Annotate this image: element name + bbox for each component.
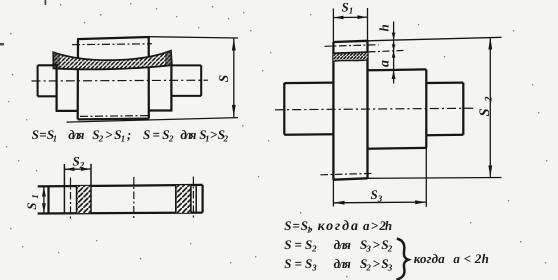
right shaft: [426, 81, 463, 84]
rim top edge: [77, 37, 149, 39]
right centerline: [192, 177, 194, 221]
left shaft: [37, 65, 39, 96]
svg-text:когда: когда: [318, 219, 358, 234]
svg-text:для: для: [180, 127, 196, 142]
middle centerline: [133, 177, 135, 221]
svg-text:S2 > S1 ;: S2 > S1 ;: [92, 127, 131, 144]
svg-text:S = S2: S = S2: [143, 127, 174, 144]
rim pitch line: [72, 43, 152, 46]
disc left edge: [332, 42, 334, 180]
S2 dimension line: [489, 38, 491, 178]
left shaft: [283, 83, 285, 135]
svg-text:a: a: [378, 60, 393, 67]
right figure arrows: [334, 15, 493, 204]
S2 right extension / hatch right edge: [90, 164, 92, 213]
svg-text:когда: когда: [414, 251, 446, 266]
svg-text:для: для: [68, 127, 84, 142]
svg-text:a > 2h: a > 2h: [363, 218, 392, 233]
S1 dimension line: [43, 186, 45, 213]
svg-text:S = S1: S = S1: [32, 127, 57, 144]
svg-text:S = S3: S = S3: [284, 256, 317, 273]
caption line under top-left figure: [32, 127, 229, 144]
S1 + S2 dim arrows: [42, 167, 91, 213]
left centerline: [70, 178, 72, 220]
svg-text:h: h: [376, 24, 391, 31]
bottom pitch line: [80, 115, 148, 118]
bottom pitch line: [321, 173, 374, 174]
rim/hub column right vertical: [148, 37, 150, 119]
rect bottom edge (with left extension): [38, 211, 203, 214]
top extension to S2: [368, 37, 502, 41]
h arrow top (points down to top ext): [392, 33, 396, 41]
S2 arrows: [488, 37, 492, 49]
svg-text:S2 > S3: S2 > S3: [360, 256, 393, 273]
right hatch band: [176, 185, 191, 213]
big curly brace: [396, 239, 408, 280]
S3 extension left (below disc): [332, 180, 334, 207]
left hatch band: [77, 186, 91, 213]
rect right edge: [201, 185, 203, 213]
dimension S: bottom extension: [67, 118, 239, 123]
hub: [368, 68, 427, 71]
left step: [55, 64, 57, 111]
S3 dimension line: [333, 201, 426, 204]
top pitch line: [325, 45, 379, 47]
top hatch band: [333, 52, 367, 61]
S1 extension lines up: [332, 9, 334, 43]
root extension (dash-dot): [369, 50, 406, 52]
column bottom edge: [78, 117, 149, 120]
right shaft: [171, 64, 201, 66]
h/a dimension line: [393, 22, 395, 84]
S dim arrows: [232, 38, 236, 117]
disc top edge: [333, 41, 367, 42]
svg-text:S = S2: S = S2: [284, 237, 317, 254]
svg-text:S1 > S2: S1 > S2: [199, 127, 228, 144]
S1 dimension line: [333, 16, 367, 19]
bowl right tip shading: [165, 51, 172, 67]
h arrow bottom (points up to root ext): [392, 51, 396, 58]
left slot line + S2 left extension: [63, 164, 65, 213]
svg-text:S3 > S2: S3 > S2: [360, 237, 393, 254]
svg-text:S: S: [216, 75, 231, 83]
svg-text:a < 2h: a < 2h: [453, 251, 489, 266]
bowl left tip shading: [53, 52, 60, 69]
dimension S: line: [233, 39, 235, 118]
S2 dimension line: [64, 168, 91, 170]
svg-text:для: для: [334, 256, 351, 271]
rim/hub column left vertical: [77, 39, 80, 120]
a arrow bottom (points up to hub top): [392, 70, 396, 79]
hatched rim section (bowl): [53, 51, 172, 70]
S1 arrows: [334, 16, 344, 20]
right step: [170, 65, 172, 110]
S3 arrows: [334, 201, 345, 205]
centerline: [32, 79, 209, 82]
rect top edge (with left extension): [38, 185, 203, 187]
bottom extension to S2: [368, 177, 502, 180]
a arrow top (points down to root ext): [392, 44, 396, 51]
dimension S: top extension: [149, 37, 238, 38]
centerline: [275, 108, 475, 110]
disc bottom edge: [333, 178, 367, 179]
rect left edge: [47, 186, 49, 213]
right slot line: [195, 185, 197, 213]
S3 extension right (below hub): [425, 148, 427, 207]
disc right edge: [366, 41, 368, 179]
svg-text:для: для: [334, 237, 351, 252]
